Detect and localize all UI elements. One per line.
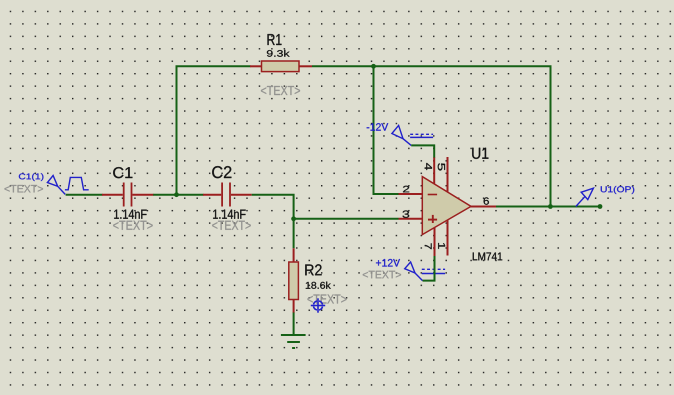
pin number 6 bbox=[484, 197, 489, 204]
power terminal +12V bbox=[405, 262, 445, 281]
pin number 2 bbox=[403, 186, 409, 192]
value 9.3k bbox=[267, 50, 290, 57]
label R2 bbox=[305, 264, 321, 275]
junction output node bbox=[548, 204, 553, 209]
R1 placeholder label bbox=[261, 86, 300, 95]
wire -12V to pin 4 bbox=[411, 145, 434, 157]
wire R2 to ground bbox=[293, 313, 295, 336]
voltage probe U1(OP) bbox=[576, 188, 594, 206]
wire node B to pin 3 bbox=[294, 218, 399, 220]
resistor R1 bbox=[250, 61, 312, 72]
junction node B bbox=[291, 216, 296, 221]
capacitor C1 bbox=[102, 183, 154, 207]
label R1 bbox=[267, 34, 281, 45]
wire C1 to C2 bbox=[153, 194, 203, 196]
junction probe node bbox=[598, 204, 603, 209]
generator probe C1(1) bbox=[47, 176, 88, 195]
pin number 4 bbox=[425, 163, 432, 170]
ground bbox=[281, 335, 306, 348]
power terminal -12V bbox=[392, 125, 433, 145]
origin marker bbox=[311, 298, 325, 312]
net label C1(1) bbox=[19, 173, 44, 181]
pin number 1 bbox=[438, 243, 445, 249]
wire op-amp output bbox=[496, 206, 600, 208]
value 1.14nF bbox=[114, 210, 146, 219]
capacitor C2 bbox=[203, 183, 252, 207]
junction node A bbox=[174, 192, 179, 197]
pin number 5 bbox=[438, 163, 445, 170]
+12V placeholder label bbox=[363, 271, 401, 278]
label C1 bbox=[113, 167, 132, 178]
R2 placeholder label bbox=[307, 294, 346, 303]
wire node A up to R1 bbox=[177, 66, 251, 194]
wire C2 to node B bbox=[252, 195, 294, 219]
resistor R2 bbox=[289, 248, 299, 313]
junction R1 right branch bbox=[371, 64, 376, 69]
wire R1 to output node bbox=[312, 66, 551, 206]
op-amp U1 bbox=[399, 157, 497, 257]
net label +12V bbox=[376, 259, 400, 266]
C1 placeholder label bbox=[113, 221, 152, 230]
net label U1(OP) bbox=[601, 186, 634, 194]
label C2 bbox=[212, 166, 231, 178]
label U1 bbox=[472, 148, 488, 159]
pin number 3 bbox=[403, 210, 410, 217]
value 18.6k bbox=[306, 282, 331, 289]
C2 placeholder label bbox=[212, 221, 250, 230]
wire junction down to pin 2 bbox=[374, 66, 399, 194]
net label -12V bbox=[367, 123, 388, 130]
wire input to C1 bbox=[66, 194, 103, 196]
value 1.14nF (C2) bbox=[213, 210, 245, 219]
wire node B down to R2 bbox=[293, 219, 295, 249]
wire +12V to pin 7 bbox=[423, 256, 435, 281]
label LM741 bbox=[473, 253, 502, 261]
pin number 7 bbox=[425, 243, 432, 249]
generator placeholder label bbox=[4, 185, 42, 192]
